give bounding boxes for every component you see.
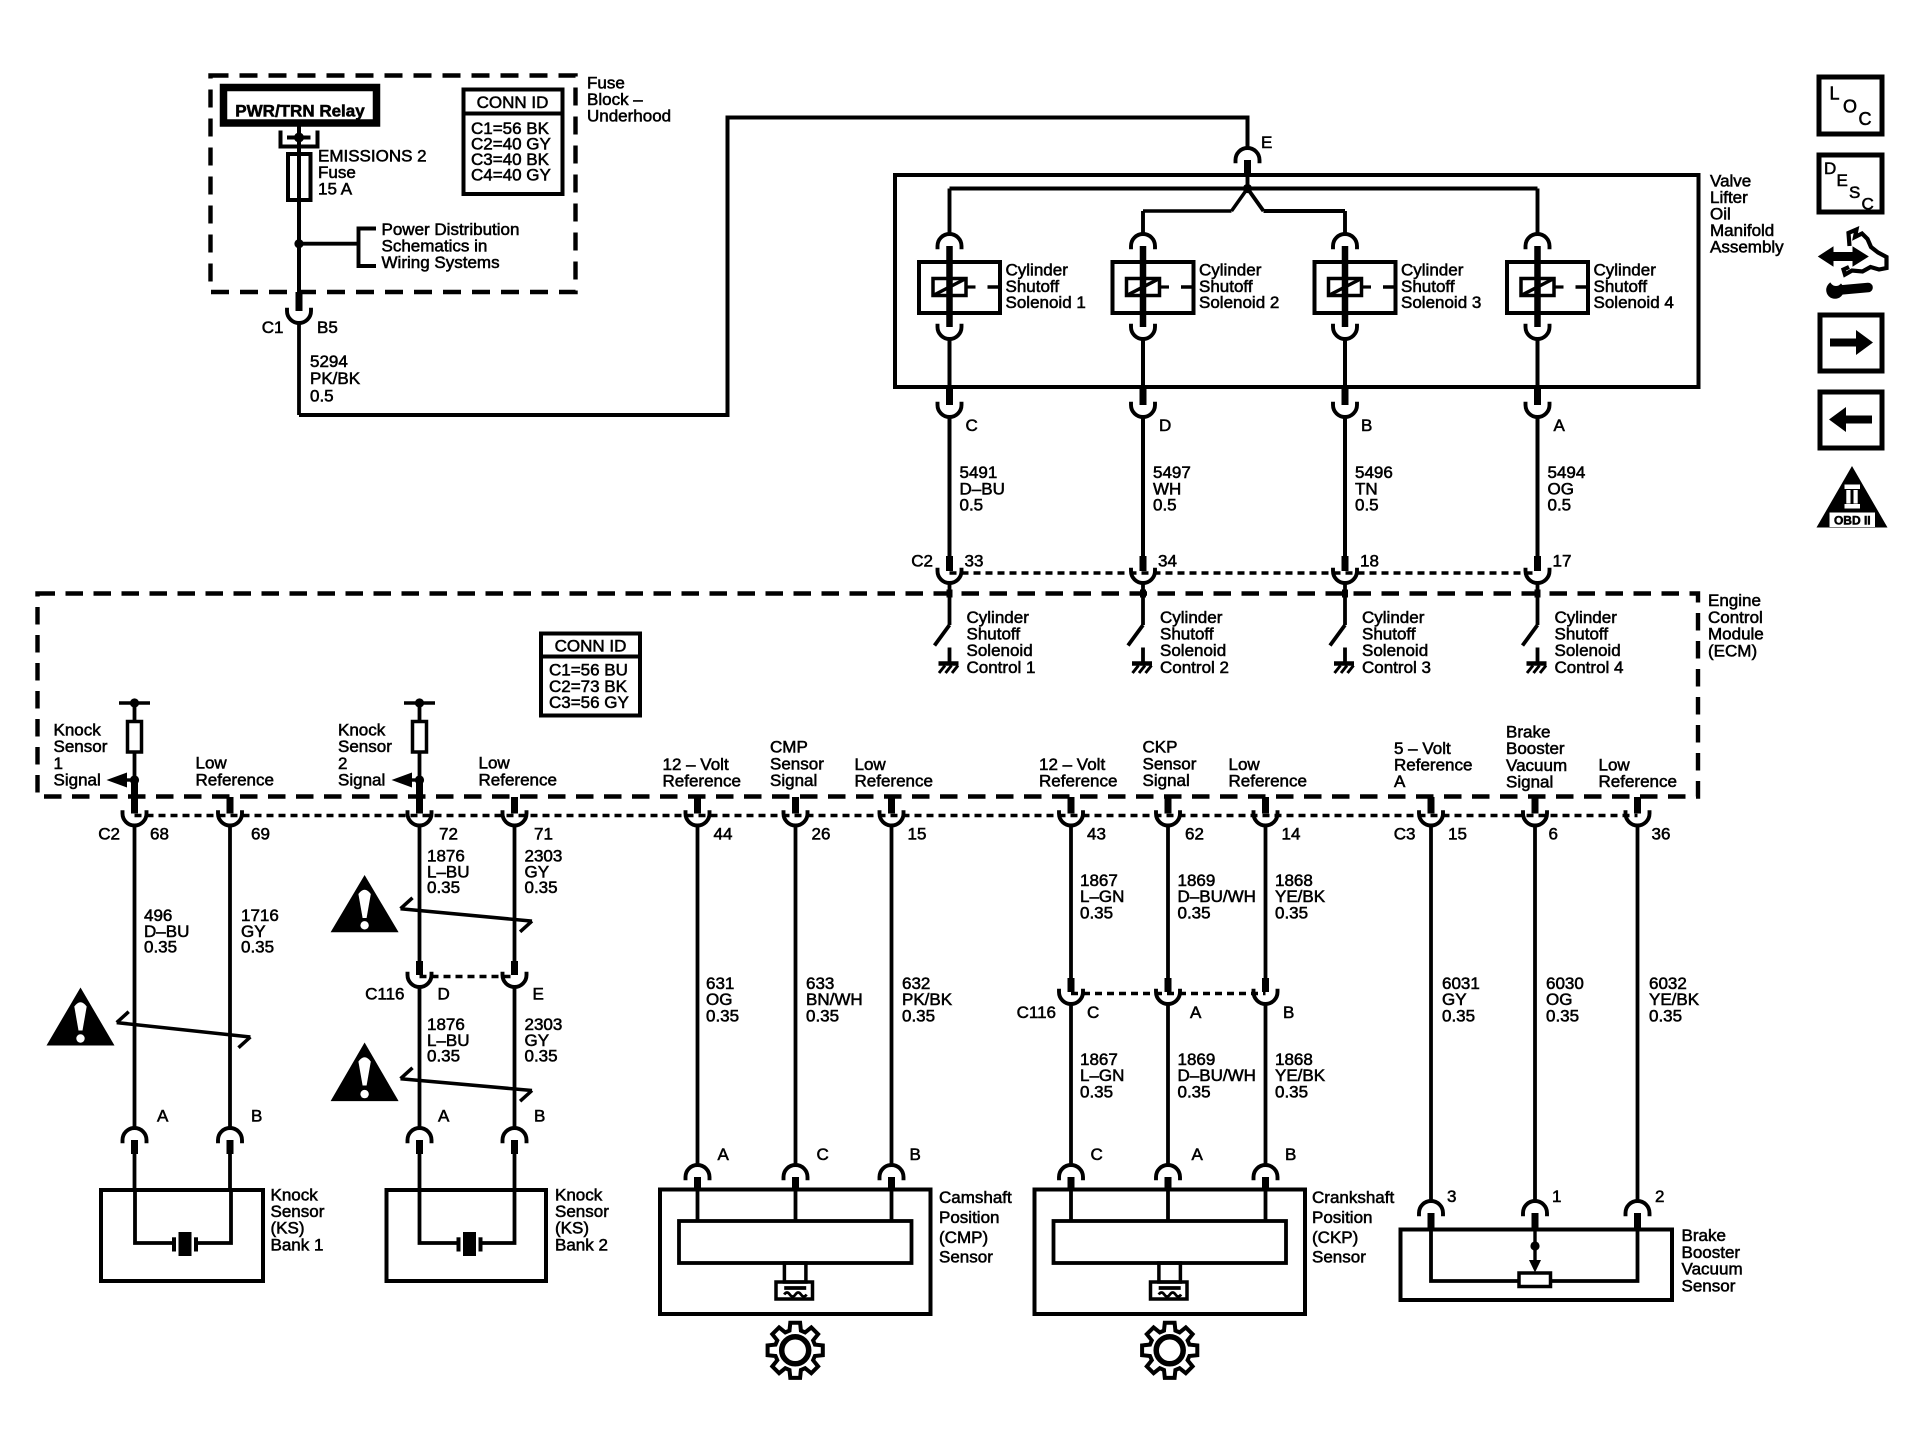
svg-text:(CMP): (CMP) xyxy=(939,1228,988,1247)
svg-text:5294: 5294 xyxy=(310,352,348,371)
svg-text:Signal: Signal xyxy=(338,771,385,790)
svg-text:62: 62 xyxy=(1185,825,1204,844)
svg-text:3: 3 xyxy=(1447,1187,1456,1206)
svg-text:CONN ID: CONN ID xyxy=(555,637,627,656)
svg-text:Solenoid 1: Solenoid 1 xyxy=(1006,293,1086,312)
svg-text:44: 44 xyxy=(714,825,733,844)
svg-text:43: 43 xyxy=(1087,825,1106,844)
svg-text:0.35: 0.35 xyxy=(525,1047,558,1066)
svg-text:Reference: Reference xyxy=(1394,756,1472,775)
svg-text:C4=40 GY: C4=40 GY xyxy=(471,166,551,185)
svg-text:14: 14 xyxy=(1282,825,1301,844)
svg-text:0.35: 0.35 xyxy=(1178,1082,1211,1101)
svg-text:Signal: Signal xyxy=(1506,773,1553,792)
svg-text:0.35: 0.35 xyxy=(144,938,177,957)
svg-text:A: A xyxy=(1190,1003,1202,1022)
svg-text:C2: C2 xyxy=(98,825,120,844)
svg-text:(CKP): (CKP) xyxy=(1312,1228,1358,1247)
svg-text:C116: C116 xyxy=(365,985,404,1004)
svg-text:E: E xyxy=(533,985,544,1004)
svg-text:Reference: Reference xyxy=(1039,772,1117,791)
svg-text:Reference: Reference xyxy=(1229,772,1307,791)
svg-text:Reference: Reference xyxy=(663,772,741,791)
svg-text:0.5: 0.5 xyxy=(1153,496,1177,515)
svg-text:Sensor: Sensor xyxy=(1312,1248,1366,1267)
svg-text:Bank 2: Bank 2 xyxy=(555,1235,608,1254)
svg-text:34: 34 xyxy=(1158,552,1177,571)
svg-text:E: E xyxy=(1261,133,1272,152)
svg-text:0.35: 0.35 xyxy=(241,938,274,957)
svg-text:PK/BK: PK/BK xyxy=(310,369,361,388)
svg-text:A: A xyxy=(1554,416,1566,435)
svg-text:Solenoid 2: Solenoid 2 xyxy=(1199,293,1279,312)
svg-text:Solenoid 4: Solenoid 4 xyxy=(1594,293,1674,312)
svg-text:33: 33 xyxy=(965,552,984,571)
svg-text:O: O xyxy=(1843,97,1857,117)
svg-text:C116: C116 xyxy=(1017,1003,1056,1022)
svg-text:Reference: Reference xyxy=(1599,772,1677,791)
svg-text:E: E xyxy=(1837,171,1848,190)
svg-text:6: 6 xyxy=(1549,825,1558,844)
svg-text:A: A xyxy=(438,1107,450,1126)
svg-text:B: B xyxy=(251,1107,262,1126)
svg-text:A: A xyxy=(157,1107,169,1126)
svg-text:Position: Position xyxy=(1312,1208,1372,1227)
svg-text:B5: B5 xyxy=(317,318,338,337)
svg-text:71: 71 xyxy=(534,825,553,844)
svg-text:2: 2 xyxy=(1655,1187,1664,1206)
svg-text:C2: C2 xyxy=(911,552,933,571)
svg-text:Wiring Systems: Wiring Systems xyxy=(382,253,500,272)
svg-text:Assembly: Assembly xyxy=(1710,238,1784,257)
svg-text:Control 2: Control 2 xyxy=(1160,658,1229,677)
svg-text:72: 72 xyxy=(439,825,458,844)
svg-text:B: B xyxy=(1283,1003,1294,1022)
svg-text:0.35: 0.35 xyxy=(706,1006,739,1025)
svg-text:0.5: 0.5 xyxy=(1355,496,1379,515)
svg-text:Signal: Signal xyxy=(770,771,817,790)
svg-text:D: D xyxy=(438,985,450,1004)
svg-text:Control 4: Control 4 xyxy=(1555,658,1624,677)
svg-text:B: B xyxy=(534,1107,545,1126)
svg-text:15 A: 15 A xyxy=(318,180,353,199)
svg-text:C: C xyxy=(966,416,978,435)
svg-text:C: C xyxy=(1087,1003,1099,1022)
svg-text:26: 26 xyxy=(812,825,831,844)
svg-text:0.35: 0.35 xyxy=(1546,1006,1579,1025)
svg-text:B: B xyxy=(910,1145,921,1164)
svg-text:C3=56 GY: C3=56 GY xyxy=(549,693,629,712)
svg-text:0.35: 0.35 xyxy=(1275,903,1308,922)
svg-text:(ECM): (ECM) xyxy=(1708,641,1757,660)
svg-text:C3: C3 xyxy=(1394,825,1416,844)
svg-text:Reference: Reference xyxy=(855,772,933,791)
svg-text:Solenoid 3: Solenoid 3 xyxy=(1401,293,1481,312)
svg-text:Crankshaft: Crankshaft xyxy=(1312,1188,1394,1207)
svg-text:Signal: Signal xyxy=(54,771,101,790)
svg-text:A: A xyxy=(1192,1145,1204,1164)
svg-text:B: B xyxy=(1361,416,1372,435)
svg-text:Control 1: Control 1 xyxy=(967,658,1036,677)
svg-text:A: A xyxy=(1394,772,1406,791)
svg-text:17: 17 xyxy=(1553,552,1572,571)
svg-text:OBD II: OBD II xyxy=(1834,514,1871,528)
svg-text:L: L xyxy=(1830,84,1840,104)
svg-text:0.5: 0.5 xyxy=(310,386,334,405)
svg-text:PWR/TRN Relay: PWR/TRN Relay xyxy=(235,102,365,121)
svg-text:15: 15 xyxy=(908,825,927,844)
svg-text:0.35: 0.35 xyxy=(427,878,460,897)
svg-text:C: C xyxy=(1091,1145,1103,1164)
svg-text:15: 15 xyxy=(1448,825,1467,844)
svg-text:A: A xyxy=(718,1145,730,1164)
svg-text:CONN ID: CONN ID xyxy=(477,93,549,112)
svg-text:Reference: Reference xyxy=(479,771,557,790)
svg-text:Reference: Reference xyxy=(196,771,274,790)
svg-text:C1: C1 xyxy=(262,318,284,337)
svg-text:0.5: 0.5 xyxy=(1548,496,1572,515)
svg-text:Sensor: Sensor xyxy=(939,1248,993,1267)
svg-text:Underhood: Underhood xyxy=(587,107,671,126)
svg-text:0.35: 0.35 xyxy=(902,1006,935,1025)
svg-text:Control 3: Control 3 xyxy=(1362,658,1431,677)
svg-text:0.35: 0.35 xyxy=(1649,1006,1682,1025)
svg-text:0.35: 0.35 xyxy=(427,1047,460,1066)
svg-text:C: C xyxy=(817,1145,829,1164)
svg-text:36: 36 xyxy=(1652,825,1671,844)
svg-text:0.35: 0.35 xyxy=(1080,903,1113,922)
svg-text:Sensor: Sensor xyxy=(1682,1276,1736,1295)
svg-text:0.35: 0.35 xyxy=(806,1006,839,1025)
svg-text:D: D xyxy=(1159,416,1171,435)
svg-text:B: B xyxy=(1285,1145,1296,1164)
svg-text:D: D xyxy=(1824,159,1836,178)
svg-text:0.5: 0.5 xyxy=(960,496,984,515)
svg-text:Position: Position xyxy=(939,1208,999,1227)
svg-text:0.35: 0.35 xyxy=(1178,903,1211,922)
svg-text:Camshaft: Camshaft xyxy=(939,1188,1012,1207)
svg-text:Signal: Signal xyxy=(1143,771,1190,790)
svg-text:C: C xyxy=(1862,195,1874,214)
svg-text:18: 18 xyxy=(1360,552,1379,571)
svg-text:68: 68 xyxy=(150,825,169,844)
svg-text:0.35: 0.35 xyxy=(1275,1082,1308,1101)
svg-text:1: 1 xyxy=(1552,1187,1561,1206)
svg-text:0.35: 0.35 xyxy=(1442,1006,1475,1025)
svg-text:C: C xyxy=(1859,109,1872,129)
svg-text:0.35: 0.35 xyxy=(525,878,558,897)
svg-text:Bank 1: Bank 1 xyxy=(271,1235,324,1254)
svg-text:S: S xyxy=(1849,183,1860,202)
svg-text:69: 69 xyxy=(251,825,270,844)
svg-text:0.35: 0.35 xyxy=(1080,1082,1113,1101)
